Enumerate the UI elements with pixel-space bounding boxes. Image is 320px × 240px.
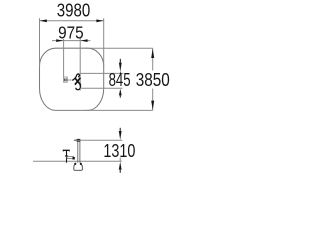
dim 3980 arrowhead right [96,19,103,22]
side view: bell right shoulder [80,163,82,165]
dim 845 lower arrow (outside below, pointing up) [119,89,122,96]
side view: connector elbow block [73,157,75,160]
dim 845 extension line bottom [80,87,123,89]
dim 975 dimension line [52,40,90,42]
side view: tap T-handle cap [63,149,70,151]
side view: wall/floor baseline [33,160,122,162]
dim 975 extension line left [63,39,65,77]
tub outline (plan view rounded square) [40,48,104,110]
dim 3850 dimension line lower part [152,89,154,111]
connector line from plate to faucet [67,79,71,81]
side view: valve tick [65,155,68,157]
dim 1310 upper arrow (outside above, pointing down) [119,128,121,132]
dim 3980 extension line right [103,18,105,67]
side view: riser top elbow [77,139,81,142]
dim 3980 extension line left [39,18,41,67]
svg-text:845: 845 [109,70,131,90]
wall plate hatch marks [64,78,66,81]
svg-text:1310: 1310 [103,141,135,161]
side view: riser pipe left line [77,141,79,163]
dim 975 arrowhead right (outside, pointing left) [81,39,88,42]
svg-text:3850: 3850 [136,70,170,90]
svg-text:975: 975 [58,23,84,43]
side view: shower head bell [74,163,83,171]
faucet symbol (plan view ornate shape) [72,74,80,90]
dim 975 arrowhead left (outside, pointing right) [56,39,63,42]
dim 975 extension line right [79,37,81,91]
side view: spout stub at elbow [74,139,76,141]
dim 1310 extension line top [74,139,122,141]
side view: connector pipe to riser [67,157,74,159]
dim 1310 lower arrow (outside below, pointing up) [119,162,122,170]
dim 3980 dimension line [40,20,104,22]
dim 3850 arrowhead bottom (pointing down) [151,101,154,110]
svg-text:3980: 3980 [57,1,91,21]
side view: bell left shoulder [74,163,76,165]
dim 3850 extension line bottom [85,109,153,111]
side view: tap stem [66,150,68,162]
side view: riser pipe right line [79,141,81,163]
dim 1310 dim line segment below text [119,158,121,162]
dim 845 extension line top [80,72,123,74]
dim 3980 arrowhead left [40,19,47,22]
dim 3850 arrowhead top (pointing up) [151,49,154,58]
dim 845 upper arrow (outside above, pointing down) [119,59,121,63]
dim 3850 extension line top [85,47,153,49]
dim 3850 dimension line upper part [152,48,154,70]
wall plate box (plan view) [64,77,68,82]
